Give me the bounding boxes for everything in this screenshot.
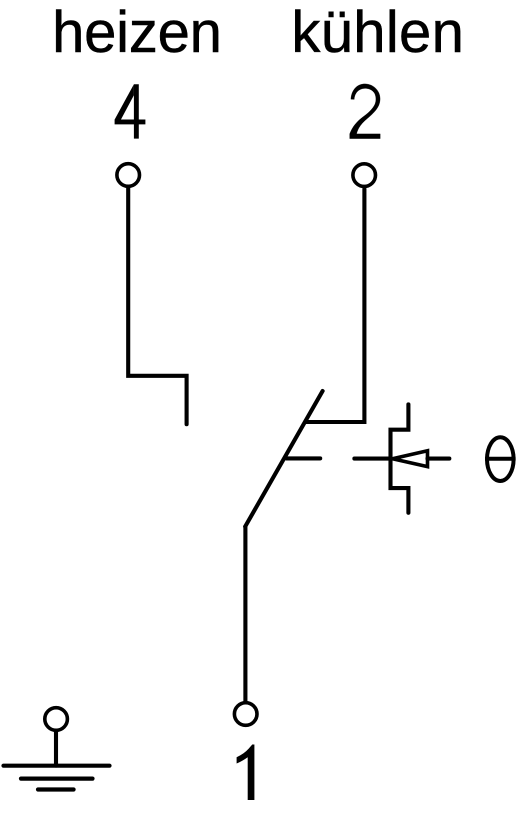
- ground bar top: [4, 764, 110, 768]
- wire terminal 4 to heizen contact: [128, 188, 186, 424]
- svg-text:heizen: heizen: [52, 0, 222, 65]
- actuator arrowhead: [393, 451, 428, 467]
- linkage segment to actuator: [354, 457, 390, 461]
- pin label 2: [350, 84, 381, 139]
- ground stem: [54, 731, 58, 766]
- terminal 4: [117, 164, 140, 187]
- wire blade to terminal 1: [243, 527, 247, 702]
- pin label 1: [237, 745, 255, 801]
- thermal actuator body: [391, 404, 409, 512]
- pin label 4: [115, 84, 146, 138]
- ground bar bottom: [38, 787, 74, 791]
- terminal 1: [234, 703, 257, 726]
- svg-text:kühlen: kühlen: [291, 0, 464, 65]
- linkage segment at blade: [286, 456, 320, 460]
- wire arrowhead to sensor: [428, 457, 450, 461]
- terminal 2: [353, 164, 376, 187]
- ground bar middle: [21, 776, 93, 780]
- ground circle: [45, 708, 68, 731]
- switch blade: [245, 391, 322, 527]
- temperature sensor theta bar: [485, 457, 516, 461]
- wire terminal 2 to kühlen contact: [305, 189, 364, 422]
- temperature sensor theta ellipse: [487, 437, 514, 481]
